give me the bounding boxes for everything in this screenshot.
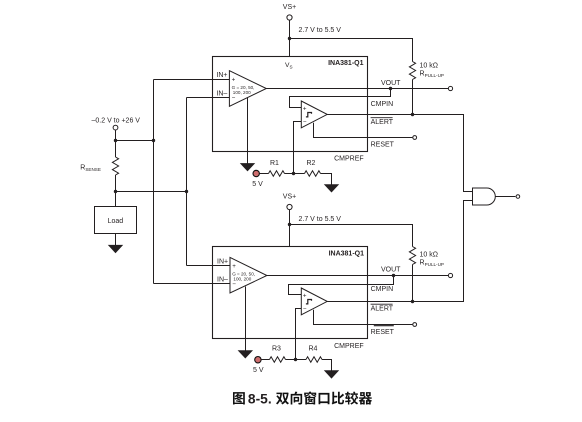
svg-text:ALERT: ALERT: [371, 119, 394, 126]
terminal AND output open circle: [516, 195, 520, 199]
wire CMP2 minus input to CMPREF node (bottom): [296, 309, 302, 360]
svg-text:R4: R4: [309, 346, 318, 353]
svg-text:R2: R2: [307, 160, 316, 167]
node A junction on sense+ line: [152, 139, 155, 142]
wire A2 ground pin down (bottom): [245, 287, 247, 351]
node junction top supply: [288, 37, 291, 40]
svg-text:IN–: IN–: [217, 276, 228, 283]
node 5 V reference (top red dot): [252, 170, 263, 188]
wire node A vertical bus (IN+ top to IN- bottom): [153, 80, 155, 284]
wire RESET pin (bottom): [314, 310, 413, 325]
svg-text:+: +: [303, 106, 307, 113]
wire node B line to IN+ (bottom U2): [187, 265, 231, 267]
svg-text:INA381-Q1: INA381-Q1: [328, 60, 364, 67]
svg-text:−: −: [303, 306, 307, 313]
caption glyph 双: [276, 393, 289, 405]
node VOUT junction (bottom): [392, 274, 395, 277]
svg-text:VS+: VS+: [283, 194, 296, 201]
svg-text:CMPREF: CMPREF: [334, 343, 364, 350]
svg-text:RESET: RESET: [371, 329, 395, 336]
terminal VOUT open circle (top): [448, 86, 452, 90]
op-amp U2 INA381-Q1 (bottom) package box: [213, 247, 368, 339]
node 5 V reference (bottom red dot): [253, 357, 264, 375]
svg-text:−: −: [303, 119, 307, 126]
wire node A line to IN- (bottom U2): [154, 283, 231, 285]
comparator CMP2 with hysteresis (bottom): [301, 288, 327, 315]
svg-text:+: +: [232, 263, 236, 270]
label pin ALERT with overline (top): [371, 118, 394, 127]
wire R3 to R4 with CMPREF tap: [286, 359, 307, 361]
comparator CMP1 with hysteresis (top): [301, 101, 327, 128]
svg-text:Load: Load: [108, 218, 124, 225]
wire pull-up bottom to ALERT line (bottom): [412, 265, 414, 302]
terminal RESET open circle (bottom): [413, 323, 417, 327]
svg-text:R3: R3: [272, 346, 281, 353]
caption glyph 比: [332, 392, 344, 405]
svg-text:10 kΩ: 10 kΩ: [420, 63, 438, 70]
resistor R3: [270, 357, 286, 363]
ground symbol below load: [108, 245, 123, 253]
wire A1 output to VOUT terminal (top): [266, 88, 448, 90]
wire CMP1 output to ALERT line and AND gate input 1: [327, 115, 472, 192]
label pin RESET with overline (bottom): [371, 326, 395, 337]
resistor R4: [306, 357, 322, 363]
node RSENSE bottom junction: [114, 190, 117, 193]
wire node B line to IN- (top U1): [187, 97, 230, 99]
svg-text:VOUT: VOUT: [381, 80, 401, 87]
svg-text:IN+: IN+: [216, 72, 227, 79]
op-amp A2 current-sense amplifier (bottom): [230, 257, 267, 293]
load block: [95, 207, 137, 234]
node VOUT junction (top): [389, 87, 392, 90]
wire RSENSE top to node A: [116, 140, 154, 142]
svg-text:ALERT: ALERT: [371, 306, 394, 313]
svg-text:+: +: [232, 76, 236, 83]
resistor R_PULL-UP bottom 10 kOhm: [409, 247, 415, 265]
svg-text:–0.2 V to +26 V: –0.2 V to +26 V: [92, 118, 141, 125]
wire top supply to pull-up R_PULL-UP top: [290, 39, 413, 62]
svg-text:VS: VS: [285, 62, 293, 69]
ground symbol R4 (bottom): [324, 370, 339, 378]
svg-text:RESET: RESET: [371, 142, 395, 149]
wire VS+ terminal down to Vs pin of bottom U2: [289, 210, 291, 247]
wire node A line to IN+ (top U1): [154, 79, 230, 81]
wire 5V dot to R1: [259, 173, 268, 175]
op-amp A1 current-sense amplifier (top): [229, 71, 266, 107]
wire RSENSE bottom to node B: [116, 191, 187, 193]
svg-text:RSENSE: RSENSE: [80, 165, 101, 173]
wire node B vertical bus (IN- top to IN+ bottom): [186, 98, 188, 266]
caption glyph 口: [319, 393, 330, 404]
node ALERT pull-up junction (top): [411, 113, 414, 116]
svg-text:INA381-Q1: INA381-Q1: [329, 250, 365, 257]
svg-text:CMPREF: CMPREF: [334, 155, 364, 162]
node VS+ (bottom supply terminal): [283, 194, 296, 210]
wire CMP1 minus input to CMPREF node (top): [294, 122, 302, 174]
svg-text:VS+: VS+: [283, 4, 296, 11]
resistor R1: [269, 171, 285, 177]
wire pull-up bottom to ALERT line (top): [412, 80, 414, 115]
resistor R2: [305, 171, 321, 177]
terminal -0.2 V to +26 V: [92, 118, 141, 131]
wire RESET pin (top): [314, 123, 413, 138]
node CMPREF divider junction (top): [292, 172, 295, 175]
wire bottom supply to pull-up top: [290, 225, 413, 247]
svg-text:CMPIN: CMPIN: [371, 101, 394, 108]
svg-text:R1: R1: [270, 160, 279, 167]
svg-text:100, 200: 100, 200: [233, 276, 251, 281]
svg-text:5 V: 5 V: [252, 181, 263, 188]
wire R4 to ground (bottom): [322, 360, 332, 371]
svg-text:−: −: [232, 281, 236, 288]
svg-text:2.7 V to 5.5 V: 2.7 V to 5.5 V: [299, 216, 342, 223]
wire terminal down through RSENSE to Load: [115, 130, 117, 206]
svg-text:+: +: [303, 293, 307, 300]
wire R1 to R2 with CMPREF tap: [285, 173, 305, 175]
resistor RSENSE: [112, 157, 118, 175]
wire AND gate output to terminal: [495, 196, 515, 198]
wire R2 to ground (top): [321, 174, 332, 185]
svg-text:100, 200: 100, 200: [233, 90, 251, 95]
caption glyph 较: [345, 391, 358, 404]
svg-text:10 kΩ: 10 kΩ: [420, 252, 438, 259]
svg-text:RPULL-UP: RPULL-UP: [420, 260, 444, 268]
label pin ALERT with overline (bottom): [371, 304, 394, 313]
caption glyph 向: [291, 392, 302, 405]
resistor R_PULL-UP top 10 kOhm: [409, 62, 415, 80]
terminal RESET open circle (top): [413, 136, 417, 140]
caption glyph 器: [359, 392, 372, 404]
ground symbol below A1 (top): [240, 163, 255, 171]
wire CMP2 output to ALERT line and AND gate input 2: [327, 201, 472, 302]
op-amp U1 INA381-Q1 (top) package box: [213, 57, 368, 152]
ground symbol below A2 (bottom): [238, 350, 253, 358]
svg-text:IN+: IN+: [217, 258, 228, 265]
AND gate U3: [473, 188, 496, 205]
wire VS+ terminal down to Vs pin of top U1: [289, 20, 291, 56]
label 10 kOhm R_PULL-UP (top): [420, 63, 444, 79]
wire VOUT to CMPIN pin hook (bottom): [289, 276, 394, 295]
wire 5V dot to R3: [261, 359, 269, 361]
svg-text:VOUT: VOUT: [381, 267, 401, 274]
wire A1 ground pin down (top): [247, 97, 249, 163]
label 10 kOhm R_PULL-UP (bottom): [420, 252, 444, 268]
ground symbol R2 (top): [324, 184, 339, 192]
svg-text:CMPIN: CMPIN: [371, 286, 394, 293]
node ALERT pull-up junction (bottom): [411, 300, 414, 303]
node junction bottom supply: [288, 223, 291, 226]
wire A2 output to VOUT terminal (bottom): [267, 275, 448, 277]
svg-text:8-5.: 8-5.: [248, 392, 272, 407]
svg-text:RPULL-UP: RPULL-UP: [420, 71, 444, 79]
wire load to ground: [115, 234, 117, 246]
svg-text:5 V: 5 V: [253, 367, 264, 374]
svg-text:IN–: IN–: [216, 90, 227, 97]
caption glyph 窗: [304, 391, 316, 404]
svg-text:−: −: [232, 94, 236, 101]
caption glyph 图: [233, 392, 245, 404]
terminal VOUT open circle (bottom): [448, 273, 452, 277]
node VS+ (top supply terminal): [283, 4, 296, 20]
node CMPREF divider junction (bottom): [294, 358, 297, 361]
svg-text:2.7 V to 5.5 V: 2.7 V to 5.5 V: [299, 27, 342, 34]
node RSENSE top junction: [114, 139, 117, 142]
wire VOUT to CMPIN pin hook (top): [290, 89, 391, 108]
node B junction on sense- line: [185, 190, 188, 193]
